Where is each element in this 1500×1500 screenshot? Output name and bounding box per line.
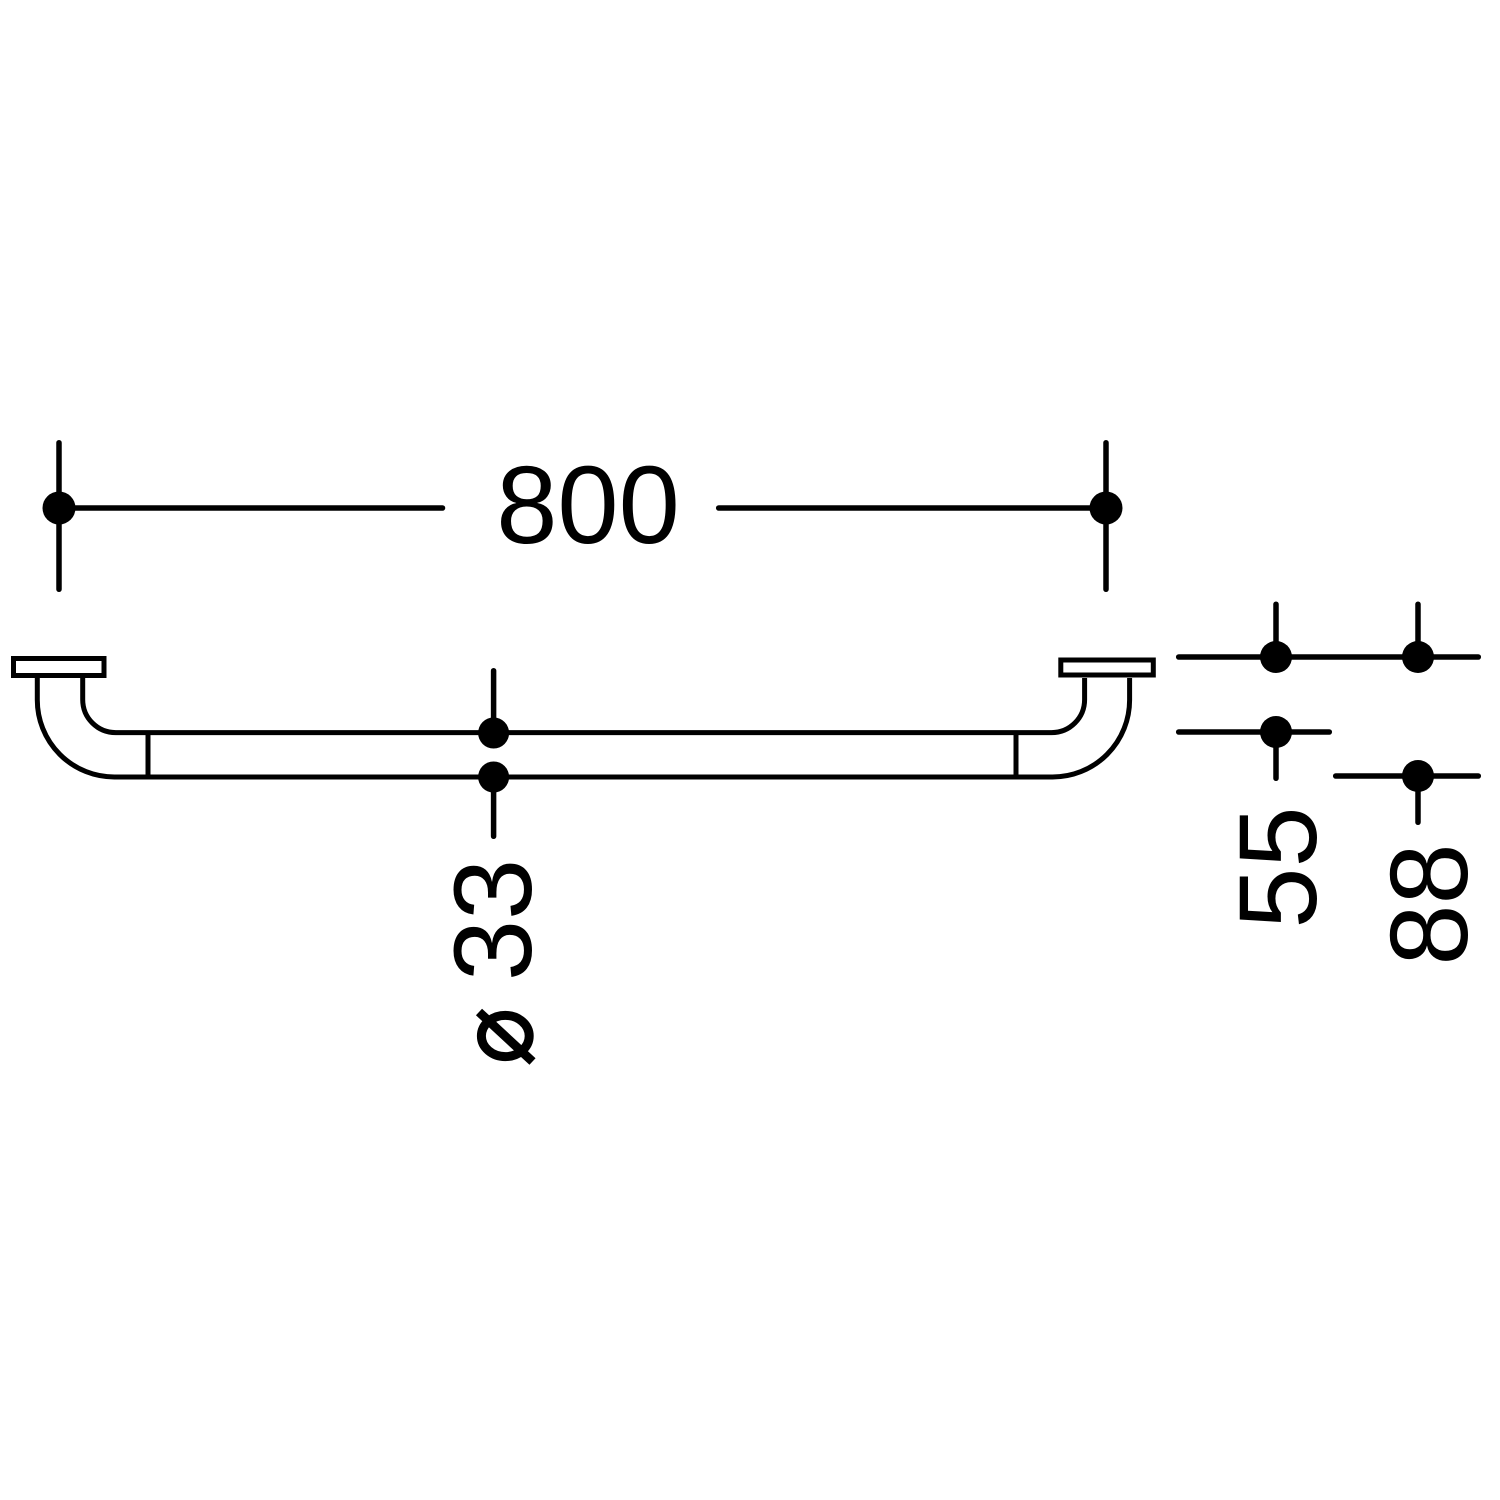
right dims: 55 reference line: [1179, 729, 1330, 735]
dimension 800: right extension tick: [1103, 443, 1109, 590]
right dims: dot A on wall line: [1260, 641, 1292, 673]
right dims: wall reference line: [1179, 654, 1479, 660]
diameter callout: dot on bar bottom line: [478, 762, 509, 793]
dimension 800: left dimension line segment: [59, 505, 443, 511]
diameter callout: tick above bar: [491, 671, 497, 733]
dimension 800: right dimension line segment: [719, 505, 1106, 511]
svg-text:33: 33: [432, 859, 555, 981]
right dims: 88 reference line: [1336, 773, 1479, 779]
diameter callout: tick below bar: [491, 777, 497, 836]
diameter callout: diameter symbol slash: [479, 1012, 533, 1062]
grab bar: outer contour (posts outer edges + bar bottom line): [37, 678, 1129, 777]
diameter callout: diameter symbol circle: [481, 1015, 529, 1056]
right dims: tick above dot A: [1273, 604, 1279, 657]
grab bar: left wall flange plate: [14, 659, 105, 676]
diameter callout: dot on bar top line: [478, 718, 509, 749]
right dims: dot D on 88 line: [1402, 760, 1434, 792]
svg-text:55: 55: [1217, 806, 1340, 928]
dimension 800: left extension tick: [56, 443, 62, 590]
grab bar: right wall flange plate: [1061, 660, 1154, 675]
right dims: tick below dot C: [1273, 732, 1279, 778]
right dims: dot C on 55 line: [1260, 716, 1292, 748]
grab bar: right tube joint line: [1014, 733, 1019, 777]
dimension 800: left terminator dot: [43, 492, 76, 525]
right dims: tick above dot B: [1415, 604, 1421, 657]
svg-text:88: 88: [1368, 843, 1491, 965]
grab bar: inner contour (posts inner edges + bar top line): [83, 678, 1085, 733]
svg-text:800: 800: [496, 444, 680, 567]
right dims: tick below dot D: [1415, 776, 1421, 822]
right dims: dot B on wall line: [1402, 641, 1434, 673]
grab bar: left tube joint line: [146, 733, 151, 777]
dimension 800: right terminator dot: [1090, 492, 1123, 525]
